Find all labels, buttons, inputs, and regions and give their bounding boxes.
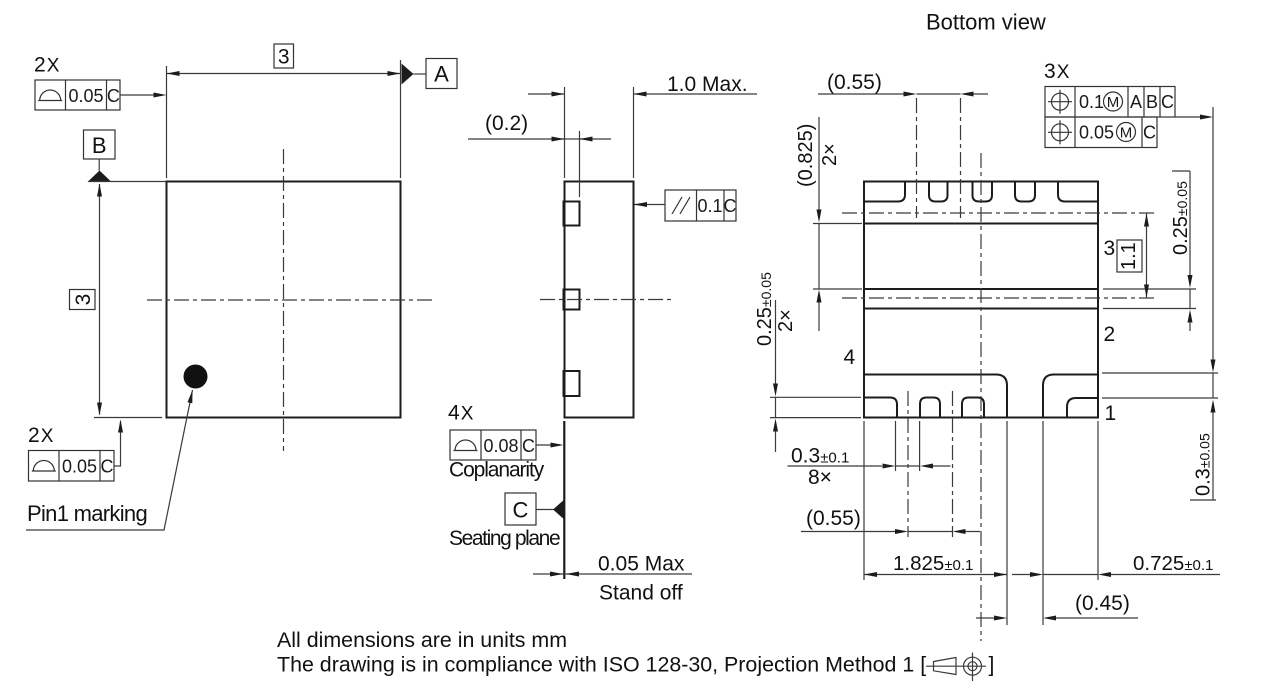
svg-text:(0.55): (0.55)	[827, 71, 882, 94]
svg-text:0.1: 0.1	[1079, 92, 1104, 112]
svg-text:C: C	[107, 86, 120, 106]
svg-text:C: C	[724, 196, 737, 216]
svg-text:C: C	[1161, 92, 1174, 112]
svg-text:0.05 Max: 0.05 Max	[598, 553, 685, 576]
svg-text:Pin1 marking: Pin1 marking	[27, 501, 147, 526]
svg-text:8×: 8×	[808, 466, 832, 489]
svg-text:Coplanarity: Coplanarity	[449, 459, 545, 482]
svg-text:M: M	[1107, 94, 1120, 111]
svg-text:C: C	[513, 498, 529, 523]
svg-text:0.05: 0.05	[1079, 123, 1114, 143]
svg-text:2×: 2×	[775, 309, 797, 332]
svg-text:4X: 4X	[448, 402, 474, 425]
svg-text:0.08: 0.08	[483, 436, 518, 456]
svg-text:0.25±0.05: 0.25±0.05	[1170, 181, 1192, 255]
svg-text:3: 3	[72, 294, 95, 306]
svg-text:B: B	[92, 133, 107, 158]
svg-text:0.25±0.05: 0.25±0.05	[754, 272, 776, 346]
svg-text:C: C	[101, 457, 114, 477]
svg-text:A: A	[1130, 92, 1142, 112]
svg-text:Stand off: Stand off	[599, 582, 683, 605]
svg-text:2X: 2X	[34, 54, 60, 77]
svg-text:1: 1	[1105, 402, 1117, 425]
svg-text:0.05: 0.05	[62, 457, 97, 477]
svg-text:3: 3	[1104, 237, 1116, 260]
svg-text:All dimensions are in units mm: All dimensions are in units mm	[277, 628, 567, 652]
svg-text:0.1: 0.1	[697, 196, 722, 216]
svg-text:C: C	[1143, 123, 1156, 143]
svg-text:The drawing is in compliance w: The drawing is in compliance with ISO 12…	[277, 653, 926, 677]
svg-text:M: M	[1120, 125, 1133, 142]
svg-text:2X: 2X	[28, 424, 54, 447]
svg-text:Seating plane: Seating plane	[449, 527, 560, 550]
svg-text:(0.45): (0.45)	[1075, 592, 1130, 615]
svg-text:]: ]	[989, 654, 995, 677]
svg-text:A: A	[434, 62, 449, 87]
svg-text:(0.2): (0.2)	[485, 112, 528, 135]
svg-text:(0.55): (0.55)	[806, 507, 861, 530]
svg-text:2×: 2×	[819, 143, 841, 166]
svg-text:3: 3	[278, 46, 290, 69]
svg-text:1.0 Max.: 1.0 Max.	[667, 73, 748, 96]
svg-text:2: 2	[1104, 323, 1116, 346]
svg-text:1.1: 1.1	[1118, 242, 1140, 270]
svg-text:0.3±0.05: 0.3±0.05	[1193, 433, 1215, 496]
svg-text:Bottom view: Bottom view	[926, 10, 1046, 35]
svg-text:3X: 3X	[1044, 60, 1070, 83]
svg-text:C: C	[522, 436, 535, 456]
svg-text:0.05: 0.05	[68, 86, 103, 106]
svg-text:B: B	[1146, 92, 1158, 112]
svg-text:(0.825): (0.825)	[795, 124, 817, 187]
svg-text:4: 4	[844, 346, 856, 369]
